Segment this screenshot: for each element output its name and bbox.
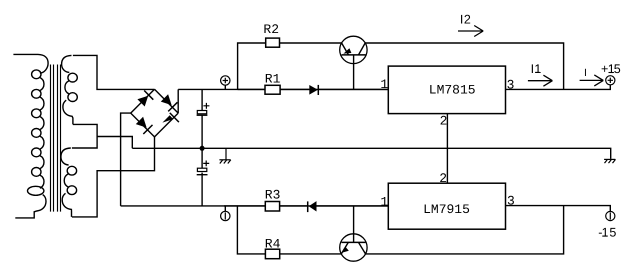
- svg-text:1: 1: [380, 194, 388, 209]
- transformer T1 primary winding: [13, 54, 48, 218]
- svg-text:I1: I1: [531, 62, 542, 76]
- positive rail wire: [178, 88, 388, 90]
- svg-text:LM7815: LM7815: [429, 83, 476, 98]
- resistor R4: [265, 249, 279, 259]
- svg-text:-15: -15: [598, 226, 616, 240]
- wire D5 to U1 pin1: [318, 88, 388, 90]
- wire U2 pin3 to -15: [506, 206, 611, 212]
- svg-text:3: 3: [507, 77, 515, 92]
- wire R4 to Q2: [280, 253, 342, 255]
- transformer T1 secondary winding 2: [61, 148, 77, 217]
- wire sec1 top to bridge AC1: [73, 55, 155, 89]
- resistor R2: [266, 38, 280, 47]
- mid ground rail wire: [132, 148, 610, 159]
- svg-text:R2: R2: [263, 22, 279, 37]
- wire R3 to diode D6: [280, 205, 308, 207]
- wire sec2 top to centertap: [72, 137, 97, 149]
- transformer T1 core: [51, 65, 61, 212]
- current arrow I1: [528, 75, 553, 86]
- svg-text:R3: R3: [265, 188, 281, 203]
- resistor R3: [265, 202, 279, 212]
- junction node dot: [200, 146, 205, 151]
- wire Q1 base: [353, 55, 355, 90]
- terminal plus raw: [221, 76, 230, 90]
- diode D6: [308, 201, 317, 212]
- wire R1 to diode D5: [280, 88, 309, 90]
- wire R4 branch: [237, 206, 265, 254]
- svg-text:R1: R1: [265, 72, 281, 87]
- svg-text:I: I: [584, 67, 587, 79]
- wire U1/U2 pin2: [446, 114, 448, 184]
- ground symbol left: [219, 148, 230, 163]
- negative rail wire: [121, 205, 389, 207]
- regulator U1 LM7815: [388, 66, 505, 114]
- wire Q2 emitter to right: [366, 206, 564, 254]
- wire bridge plus to positive rail: [177, 89, 179, 113]
- wire Q2 base: [353, 206, 355, 243]
- wire sec1 bottom centertap jog: [73, 124, 97, 136]
- current arrow I: [580, 75, 604, 86]
- wire centertap to mid rail: [97, 137, 132, 149]
- transistor Q2: [340, 234, 367, 261]
- wire D6 to U2 pin1: [317, 205, 389, 207]
- capacitor C2 lead: [201, 148, 203, 206]
- svg-text:3: 3: [507, 194, 515, 209]
- diode bridge D2 top-right: [155, 89, 179, 113]
- terminal +15: [606, 76, 615, 85]
- transistor Q1: [340, 36, 367, 63]
- capacitor C2: [197, 161, 210, 175]
- svg-text:+15: +15: [601, 62, 621, 76]
- resistor R1: [265, 85, 280, 94]
- diode bridge D4 bottom-right: [155, 113, 179, 137]
- svg-text:2: 2: [440, 114, 448, 129]
- regulator U2 LM7915: [388, 183, 505, 229]
- terminal -15: [606, 211, 615, 220]
- diode D5: [309, 85, 318, 95]
- wire R2 branch: [238, 43, 266, 89]
- wire R2 to Q1: [280, 42, 342, 44]
- wire sec2 bottom to bridge AC2: [72, 137, 155, 217]
- wire Q1 collector to right: [365, 43, 563, 89]
- transformer T1 secondary winding 1: [62, 55, 78, 124]
- svg-text:1: 1: [380, 77, 388, 92]
- svg-text:I2: I2: [460, 13, 471, 27]
- wire U1 pin3 to +15: [506, 85, 611, 90]
- svg-text:LM7915: LM7915: [423, 202, 470, 217]
- wire R1 left: [238, 88, 265, 90]
- svg-text:2: 2: [439, 171, 447, 186]
- diode bridge D3 bottom-left: [131, 113, 155, 137]
- terminal minus raw: [221, 206, 230, 221]
- ground symbol right: [604, 159, 615, 163]
- wire bridge minus to negative rail: [121, 113, 131, 206]
- capacitor C1 lead: [201, 89, 203, 148]
- current arrow I2: [458, 26, 483, 37]
- capacitor C1: [197, 103, 210, 115]
- diode bridge D1 top-left: [131, 89, 155, 113]
- wire R3 branch left: [224, 205, 265, 207]
